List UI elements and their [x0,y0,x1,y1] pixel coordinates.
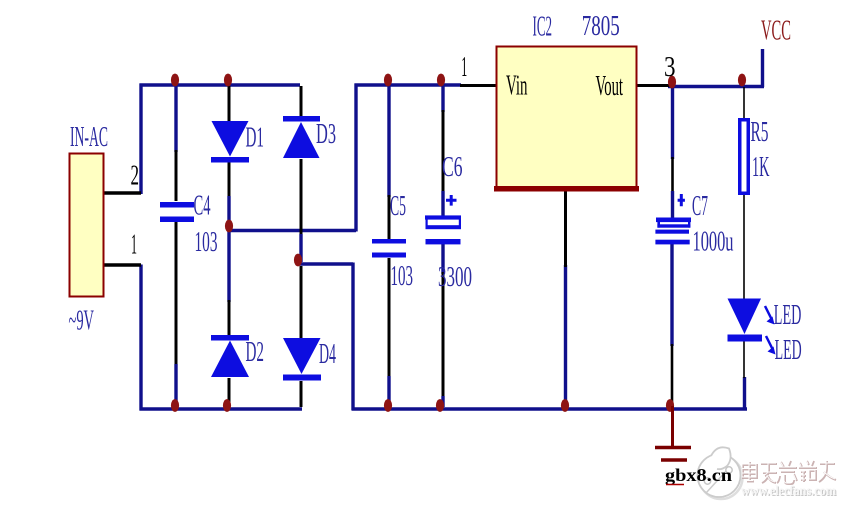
svg-text:1K: 1K [752,152,770,183]
wire bottom rail left segment [140,407,303,410]
node dot bottom IC2 gnd [561,399,569,412]
node dot VCC R5 [738,74,746,87]
wire D2 anode stub [227,231,230,335]
svg-text:7805: 7805 [582,11,620,42]
svg-text:103: 103 [391,261,414,292]
wire C7 top lead blue upper [671,88,674,159]
svg-text:www.elecfans.com: www.elecfans.com [741,483,837,498]
resistor R5 [740,117,770,193]
wire LED to bottom rail [743,377,746,410]
svg-text:D1: D1 [246,123,265,154]
wire pin2 vertical [139,84,142,195]
svg-text:1: 1 [461,52,467,83]
svg-text:1: 1 [131,230,137,261]
wire node B horizontal [298,262,353,265]
ground [655,406,691,460]
wire C6 bottom lead [441,244,444,407]
wire C7 bottom lead blue [670,244,673,346]
wire R5 to LED lead [743,195,745,299]
wire LED cathode lead [743,341,745,378]
svg-text:3: 3 [664,52,676,83]
node dot bottom C4 [171,399,179,412]
node dot top D1 [224,74,232,87]
wire D4 cathode stub [300,381,303,407]
wire pin1 stub [104,263,141,267]
wire IC2 pin1 stub [460,84,497,87]
wire pin2 stub [104,191,141,195]
node dot pin3 [668,76,676,89]
watermark gbx8.cn [665,465,732,485]
capacitor C4 [160,191,218,259]
node dot bottom ground [666,399,674,412]
svg-text:C6: C6 [442,152,463,183]
node B dot [294,254,302,267]
wire C7 bottom lead black [671,344,674,403]
svg-text:1000u: 1000u [693,227,734,258]
wire pin3 to VCC node [668,85,764,88]
node A dot [225,220,233,233]
svg-text:103: 103 [195,227,218,258]
capacitor C7 polarized [655,191,733,258]
wire D3 cathode stub [300,86,303,116]
svg-text:VCC: VCC [761,16,791,47]
wire bottom rail right segment [352,407,748,410]
node dot top C5 [384,74,392,87]
capacitor C6 polarized [425,152,472,293]
wire VCC stub [761,49,764,87]
watermark chinese text highlight [742,460,835,483]
svg-text:Vout: Vout [596,71,624,102]
wire top rail left segment [140,83,301,86]
svg-text:3300: 3300 [438,262,472,293]
svg-text:Vin: Vin [506,71,528,102]
svg-text:IC2: IC2 [533,12,553,43]
wire D3 anode stub [300,159,303,262]
svg-text:D3: D3 [316,119,336,150]
node dot bottom C6 [436,399,444,412]
diode D2 [211,335,264,377]
svg-text:LED: LED [775,335,802,366]
diode D3 [283,116,336,158]
wire C7 top lead blue lower [671,191,674,218]
svg-text:D4: D4 [319,339,336,370]
wire D1 anode stub [228,86,231,121]
wire C4 bottom lead [175,222,178,407]
diode D4 [283,338,336,381]
watermark chinese text [743,461,836,484]
wire IC2 ground lead blue [564,265,567,404]
wire D1 cathode stub [228,162,231,228]
svg-text:2: 2 [131,161,140,192]
wire C7 top lead black middle [671,157,674,193]
node dot bottom C5 [384,399,392,412]
wire C4 top lead [174,86,177,201]
wire C5 top lead [387,86,390,239]
wire IC2 pin3 stub [637,84,672,87]
svg-text:IN-AC: IN-AC [70,122,108,153]
node dot top C6 [437,74,445,87]
wire C5 bottom lead [388,258,391,407]
svg-text:gbx8.cn: gbx8.cn [665,465,732,485]
svg-text:~9V: ~9V [69,306,95,337]
capacitor C5 [372,191,413,292]
watermark logo circle [698,447,743,499]
diode D1 [211,121,264,163]
svg-text:R5: R5 [751,117,769,148]
wire pin1 vertical [139,265,142,411]
svg-text:LED: LED [774,300,802,331]
wire top rail right segment [355,83,462,86]
power VCC [761,16,791,47]
connector J1 IN-AC [69,122,140,337]
svg-text:C5: C5 [390,191,406,222]
wire node A horizontal [229,229,356,232]
svg-text:D2: D2 [246,337,265,368]
diode LED [728,299,802,367]
wire IC2 pin2 ground stub [564,189,567,267]
watermark url text [741,483,838,499]
wire C6 top lead [441,86,444,216]
wire D2 cathode stub [228,378,231,407]
wire riser x356 [354,84,357,232]
node dot bottom D2 [223,399,231,412]
wire R5 top lead [743,87,745,119]
node dot top C4 [171,74,179,87]
wire D4 anode stub [300,266,303,338]
wire dropper x353 [351,263,354,411]
svg-text:C7: C7 [692,191,708,222]
svg-text:C4: C4 [194,191,211,222]
regulator IC2 7805 [461,11,675,192]
